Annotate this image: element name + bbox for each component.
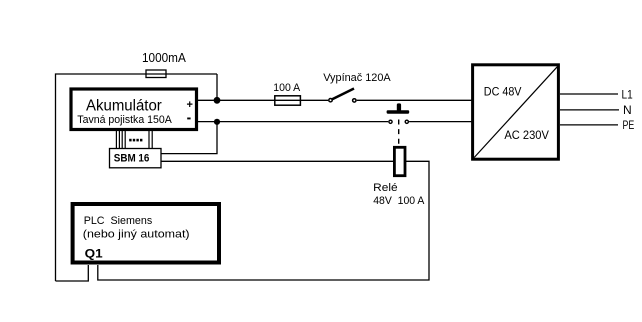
wire minus rail after contact to DC box xyxy=(409,121,471,123)
module U2 SBM 16 box xyxy=(110,149,162,168)
wire SBM16 lower to relay coil left xyxy=(161,160,393,162)
wire SBM16 upper to minus node xyxy=(161,122,217,154)
svg-text:Tavná pojistka 150A: Tavná pojistka 150A xyxy=(77,114,172,126)
wire minus rail: battery - to relay contact xyxy=(198,121,388,123)
svg-text:1000mA: 1000mA xyxy=(142,51,186,65)
svg-text:DC 48V: DC 48V xyxy=(484,84,522,98)
svg-text:Relé: Relé xyxy=(373,182,397,194)
svg-text:48V 100 A: 48V 100 A xyxy=(373,195,425,207)
connector ribbon battery to SBM16 xyxy=(116,131,152,149)
relay coil K1 xyxy=(394,147,405,175)
svg-text:L1: L1 xyxy=(622,87,633,101)
svg-text:SBM 16: SBM 16 xyxy=(114,153,150,165)
switch S1 contact circle right xyxy=(353,99,356,102)
svg-text:PE: PE xyxy=(623,118,635,132)
wire bottom-left from PLC bottom down to left loop xyxy=(56,265,89,281)
svg-text:AC 230V: AC 230V xyxy=(504,128,549,142)
svg-text:N: N xyxy=(623,103,632,117)
PLC Q1 box xyxy=(73,204,219,263)
inverter diagonal line xyxy=(474,67,557,158)
svg-text:Vypínač 120A: Vypínač 120A xyxy=(323,72,391,84)
wire relay coil right to PLC via bottom xyxy=(98,161,429,280)
svg-text:Q1: Q1 xyxy=(85,247,103,261)
switch S1 contact circle left xyxy=(329,99,332,102)
battery B1 Akumulator box xyxy=(71,89,197,130)
wire plus rail after switch to DC box xyxy=(357,99,472,101)
wire from 1000mA fuse corner down to plus node xyxy=(216,74,218,100)
inverter U1 box DC/AC xyxy=(473,65,559,159)
fuse F1 1000mA xyxy=(146,70,166,78)
mechanical link dashed line xyxy=(398,120,400,146)
relay actuator T symbol xyxy=(387,103,410,113)
wire output N xyxy=(560,109,619,111)
node plus junction xyxy=(214,97,221,104)
svg-text:Akumulátor: Akumulátor xyxy=(86,97,162,114)
svg-text:PLC Siemens: PLC Siemens xyxy=(84,215,153,227)
wire output PE xyxy=(560,124,618,126)
svg-text:+: + xyxy=(186,99,192,111)
wire output L1 xyxy=(560,93,618,95)
relay contact K1 circle left xyxy=(389,120,392,123)
svg-text:(nebo jiný automat): (nebo jiný automat) xyxy=(83,229,190,241)
switch S1 lever xyxy=(332,89,354,100)
svg-text:100 A: 100 A xyxy=(273,82,301,94)
wire left loop: PLC up left side to 1000mA fuse wire xyxy=(56,74,218,281)
relay contact K1 circle right xyxy=(405,120,408,123)
battery terminal label minus xyxy=(187,118,190,120)
wire plus rail: battery + to DC box xyxy=(198,99,328,101)
node minus junction xyxy=(214,119,220,125)
fuse F2 100 A xyxy=(275,96,301,105)
